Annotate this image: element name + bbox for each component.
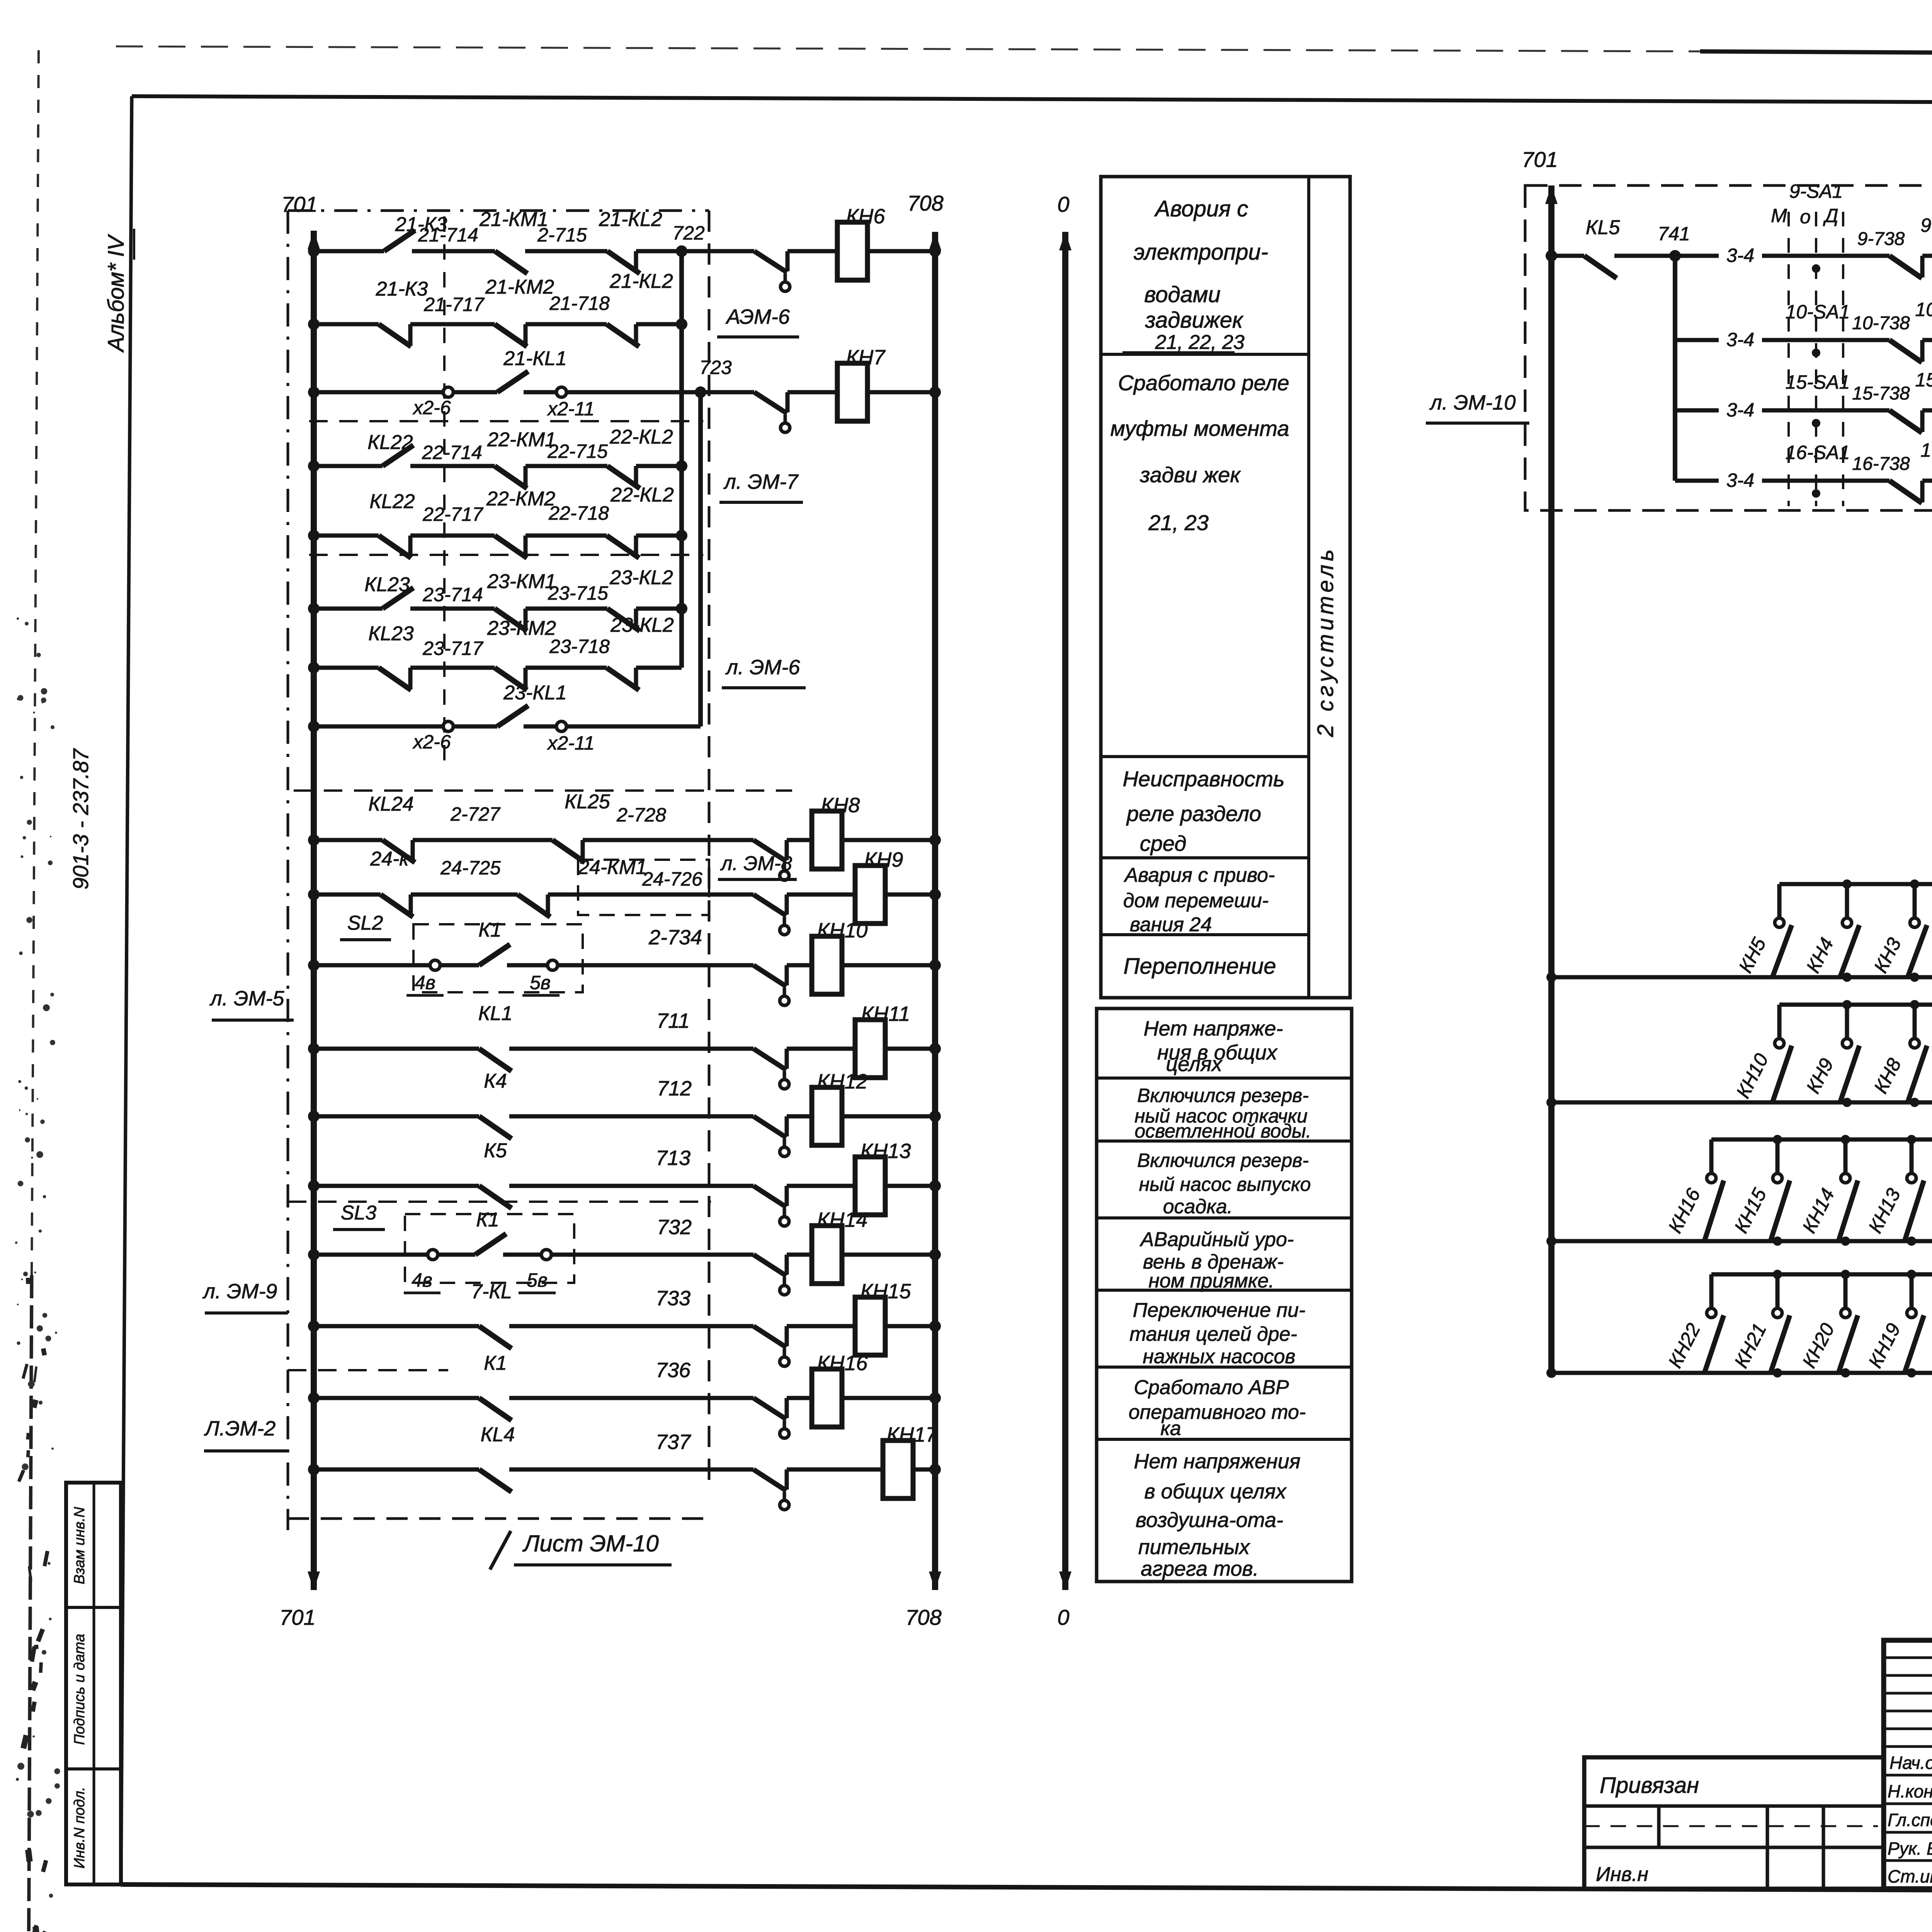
svg-text:л. ЭМ-5: л. ЭМ-5 [209,987,285,1010]
contact 21-KL2 [607,251,640,274]
title left extension box [1584,1757,1884,1889]
svg-text:задвижек: задвижек [1145,308,1244,333]
margin stamp table [66,1483,121,1884]
svg-text:Включился резерв-: Включился резерв- [1137,1085,1309,1106]
svg-text:3-4: 3-4 [1726,469,1754,491]
svg-text:733: 733 [656,1287,690,1310]
relay KH15 [855,1297,885,1355]
contact KL4 [479,1469,512,1492]
contact 23-KL1 [497,706,528,726]
svg-text:агрега тов.: агрега тов. [1141,1557,1259,1580]
svg-text:722: 722 [672,222,705,244]
branch 15: 3-4 / 15-738 / contact 15-KM1 [1675,408,1719,413]
svg-text:дом перемеши-: дом перемеши- [1123,889,1269,912]
contact K5 [479,1186,512,1208]
dashed group separator y1436 [309,554,703,556]
wire rung3 to x2-11 [524,390,557,395]
svg-text:16-SA1: 16-SA1 [1786,442,1850,463]
contact KH10 test [753,965,786,986]
svg-text:о: о [1800,206,1811,228]
wire KH7 to bus 708 [867,390,935,395]
contact 23-KM1 [495,609,527,631]
middle text column box 1 [1101,177,1350,998]
terminal 5v rung11 [507,963,548,968]
branch 9: 3-4 / 9-738 / contact 9-KM1 [1675,254,1719,258]
relay KH9 [855,866,885,923]
rung4 wire from bus 701 [314,464,383,468]
relay KH13 [855,1157,885,1215]
svg-text:708: 708 [905,1605,941,1629]
svg-text:Неисправность: Неисправность [1122,767,1284,791]
svg-text:К1: К1 [478,919,502,941]
svg-text:Сработало реле: Сработало реле [1118,371,1289,395]
contact 23-KM2 [495,668,527,690]
wire rung4 to collector [636,464,682,468]
svg-text:10-738: 10-738 [1852,313,1910,333]
contact KL1 [479,1049,512,1071]
svg-text:КL25: КL25 [565,791,610,813]
svg-text:осадка.: осадка. [1163,1196,1233,1218]
svg-text:тания целей дре-: тания целей дре- [1129,1323,1297,1345]
collector wire node 723 vertical [698,392,703,726]
svg-text:5в: 5в [527,1269,548,1291]
svg-text:Переключение пи-: Переключение пи- [1133,1299,1306,1321]
svg-text:3-4: 3-4 [1726,399,1754,421]
wire 733 to KH15 [509,1324,753,1328]
svg-text:вания 24: вания 24 [1130,913,1212,936]
rung10 wire from bus 701 [314,893,381,897]
svg-text:Нет напряже-: Нет напряже- [1144,1017,1283,1040]
svg-text:24-725: 24-725 [440,857,501,879]
dashed vertical x2 connector line [443,216,446,769]
left bus 701 [311,231,317,1590]
contact KH16 test [753,1398,786,1419]
svg-text:Авория с: Авория с [1154,196,1248,221]
svg-text:пительных: пительных [1138,1536,1250,1559]
svg-text:КL22: КL22 [367,431,413,454]
wire KH8 to bus 708 [842,838,935,842]
dashed line SA1 mid [1815,212,1817,506]
wire 22-715 [526,464,607,468]
svg-text:901-3 - 237.87: 901-3 - 237.87 [68,748,93,889]
wire to relay KH14 [787,1253,812,1257]
wire to node 722 [636,249,754,253]
svg-text:Взам инв.N: Взам инв.N [71,1507,88,1584]
svg-text:21-КL1: 21-КL1 [503,347,567,370]
svg-text:КL4: КL4 [481,1423,515,1446]
wire rung6 to collector [636,607,682,611]
dash-dot enclosure left ladder [287,211,289,1530]
rung1 wire from bus 701 [314,249,384,253]
contact KL24 [383,840,415,862]
svg-text:22-717: 22-717 [422,503,484,525]
svg-text:23-КL2: 23-КL2 [610,614,674,636]
svg-text:муфты момента: муфты момента [1110,416,1289,440]
wire to relay KH15 [787,1324,855,1328]
title block outline [1884,1640,1932,1889]
left bus 708 [932,232,938,1590]
svg-text:реле раздело: реле раздело [1126,801,1261,826]
lamp row HL9 wire 747 with contacts KH16-KH11 [1711,1138,1932,1142]
svg-text:Гл.спец: Гл.спец [1888,1810,1932,1830]
rung15 wire from bus 701 [314,1253,428,1257]
svg-text:737: 737 [656,1430,691,1454]
svg-text:К1: К1 [484,1352,507,1374]
svg-text:0: 0 [1057,1605,1069,1629]
row divider y917 [1101,353,1309,356]
wire KH11 to bus 708 [885,1047,935,1051]
lamp row HL8 wire 746 with contacts KH10-KH6 [1779,1003,1932,1007]
svg-text:л. ЭМ-7: л. ЭМ-7 [723,470,799,493]
rung6 wire from bus 701 [314,607,383,611]
svg-text:21-718: 21-718 [549,293,610,314]
svg-text:2-728: 2-728 [616,804,666,826]
svg-text:2 сгуститель: 2 сгуститель [1313,546,1338,737]
relay KH14 [812,1226,842,1284]
svg-text:Инв.N подл.: Инв.N подл. [71,1787,88,1869]
svg-text:0: 0 [1057,192,1069,216]
wire KH9 to bus 708 [885,893,935,897]
svg-text:701: 701 [279,1605,315,1629]
svg-text:3-4: 3-4 [1726,329,1754,350]
wire 21-718 [526,322,607,327]
svg-text:701: 701 [1522,147,1558,172]
wire KH6 to bus 708 [867,249,935,253]
wire KH10 to bus 708 [842,963,935,968]
svg-text:КL23: КL23 [368,622,413,645]
rung18 wire from bus 701 [314,1468,479,1472]
relay KH10 [812,936,842,994]
wire 2-715 [525,249,607,253]
contact 21-KM2 [495,324,527,347]
dashed group separator y3546 [288,1369,448,1371]
svg-text:22-714: 22-714 [422,442,482,463]
svg-text:10-SA1: 10-SA1 [1786,301,1850,323]
svg-text:21-К3: 21-К3 [376,278,428,300]
rung12 wire from bus 701 [314,1047,479,1051]
svg-text:Нет напряжения: Нет напряжения [1134,1450,1300,1473]
connector x2-11 rung8 [556,721,566,731]
svg-text:Ст.инж: Ст.инж [1888,1866,1932,1886]
svg-text:М: М [1771,205,1787,226]
svg-text:ный насос выпуско: ный насос выпуско [1139,1173,1311,1195]
svg-text:Переполнение: Переполнение [1123,954,1276,979]
box2 divider y3339 [1097,1289,1352,1292]
svg-text:Н.конт: Н.конт [1888,1781,1932,1801]
wire to relay KH7 [787,390,837,395]
wire rung3 mid [453,390,497,395]
svg-text:целях: целях [1166,1053,1223,1076]
dashed box 24-KM1 [578,860,709,915]
wire to relay KH8 [787,838,812,842]
svg-text:КН11: КН11 [861,1002,910,1026]
svg-text:x2-11: x2-11 [547,732,594,754]
svg-text:воздушна-ота-: воздушна-ота- [1136,1509,1283,1532]
contact 21-K3 rung2 [379,324,411,347]
contact KL25 [553,840,585,862]
svg-text:10-КМ1: 10-КМ1 [1915,299,1932,320]
right bus 701 [1548,185,1554,1373]
svg-text:Подпись и дата: Подпись и дата [71,1634,88,1745]
svg-text:Л.ЭМ-2: Л.ЭМ-2 [204,1417,276,1440]
contact KH14 test [753,1255,786,1276]
terminal 5v rung15 [503,1253,542,1257]
svg-text:КН13: КН13 [861,1139,911,1163]
rung8 wire from bus 701 [314,724,444,729]
svg-text:Д: Д [1823,205,1838,226]
wire rung3 to node 723 [566,390,754,395]
svg-text:736: 736 [656,1359,691,1382]
contact KH13 test [753,1186,786,1207]
dashed group separator y2046 [294,789,792,792]
svg-text:КН10: КН10 [817,919,868,942]
svg-text:КН14: КН14 [817,1208,868,1231]
box2 divider y2953 [1097,1139,1352,1143]
contact K1 rung11 [440,963,479,968]
contact 22-KL2 rung5 [607,536,639,558]
dashed box SL2 [413,924,583,992]
rung14 wire from bus 701 [314,1184,479,1188]
svg-text:КL23: КL23 [364,573,410,596]
contact 7-KL [479,1326,512,1349]
contact 21-KM1 [495,251,527,274]
contact KH11 test [753,1049,786,1070]
contact 21-KL1 [497,371,528,392]
wire rung2 to collector [636,322,682,327]
contact KH6 test [754,251,787,272]
wire 2-728 to KH8 [583,838,753,842]
lamp row HL10 wire 748 with contacts KH22-KH17 [1711,1272,1932,1277]
title thin rows [1884,1656,1932,1659]
svg-text:21-714: 21-714 [418,224,478,246]
svg-text:x2-6: x2-6 [412,397,451,418]
svg-text:л. ЭМ-8: л. ЭМ-8 [720,852,792,875]
svg-text:КН17: КН17 [887,1423,938,1446]
row divider y2419 [1101,933,1309,936]
svg-text:23-717: 23-717 [422,638,484,659]
svg-text:x2-11: x2-11 [547,398,594,420]
contact 24-KM1 [518,895,550,917]
box2 divider y3538 [1097,1366,1352,1369]
wire KL5 to node 741 [1614,254,1675,258]
row divider y1958 [1101,755,1309,758]
wire 22-714 [410,464,495,468]
wire 711 to KH11 [509,1047,753,1051]
svg-text:КН9: КН9 [864,848,903,871]
svg-text:КН6: КН6 [846,205,886,228]
svg-text:сред: сред [1140,831,1187,855]
wire 2-734 to KH10 [557,963,753,968]
contact 21-K3 rung1 [384,230,415,251]
svg-text:Нач.отд: Нач.отд [1889,1753,1932,1773]
svg-text:ном приямке.: ном приямке. [1148,1270,1274,1292]
contact 24-k [381,895,413,917]
svg-text:4в: 4в [415,972,435,993]
wire KH12 to bus 708 [842,1114,935,1119]
relay KH6 [837,222,867,280]
svg-text:Включился резерв-: Включился резерв- [1137,1150,1309,1171]
contact K1 rung15 [437,1253,475,1257]
contact KL23 rung7 [379,668,411,690]
svg-text:КН7: КН7 [846,346,886,369]
svg-text:16-738: 16-738 [1852,454,1910,474]
svg-text:22-715: 22-715 [547,440,608,462]
contact KL22 rung5 [379,536,411,558]
wire to relay KH10 [787,963,812,968]
rung3 wire from bus 701 [314,390,444,395]
svg-text:23-714: 23-714 [422,584,483,605]
svg-text:22-КL2: 22-КL2 [609,426,673,448]
svg-text:24-КМ1: 24-КМ1 [578,856,647,879]
wire 23-717 [410,666,495,670]
svg-text:708: 708 [907,191,943,215]
wire KH16 to bus 708 [842,1396,935,1400]
svg-text:К5: К5 [484,1139,507,1162]
contact KL5 [1551,254,1584,258]
svg-text:x2-6: x2-6 [412,731,451,753]
terminal 4v rung15 [428,1250,438,1260]
contact K4 [479,1116,512,1139]
box2 divider y2790 [1097,1077,1352,1080]
svg-text:7-КL: 7-КL [471,1281,512,1303]
svg-text:л. ЭМ-10: л. ЭМ-10 [1429,391,1516,414]
wire 24-725 [411,893,518,897]
svg-text:22-КL2: 22-КL2 [610,484,674,506]
svg-text:23-718: 23-718 [549,636,610,657]
svg-text:SL3: SL3 [341,1202,377,1224]
svg-text:КL24: КL24 [368,793,413,815]
relay KH17 [883,1440,913,1498]
svg-text:15-КМ1: 15-КМ1 [1915,369,1932,391]
svg-text:9-SA1: 9-SA1 [1789,180,1843,202]
wire to relay KH12 [787,1114,812,1119]
svg-text:3-4: 3-4 [1726,245,1754,266]
wire 22-717 [410,534,495,538]
contact KH12 test [753,1116,786,1138]
svg-text:21, 22, 23: 21, 22, 23 [1155,331,1244,354]
scan speckles lower left [27,820,32,825]
sheet border top band line [1700,51,1932,57]
wire KH14 to bus 708 [842,1253,935,1257]
wire 712 to KH12 [509,1114,753,1119]
contact KL23 rung6 [383,588,413,609]
wire to relay KH11 [787,1047,855,1051]
middle column sub divider [1307,177,1310,998]
relay KH16 [812,1369,842,1427]
svg-text:21, 23: 21, 23 [1148,510,1209,535]
svg-text:21-717: 21-717 [423,294,485,315]
svg-text:21-КL2: 21-КL2 [609,270,673,293]
svg-text:водами: водами [1144,282,1221,307]
wire 713 to KH13 [509,1184,753,1188]
svg-text:КL5: КL5 [1586,216,1621,239]
svg-text:712: 712 [657,1077,692,1100]
svg-text:2-727: 2-727 [450,803,501,825]
svg-text:КН12: КН12 [817,1070,868,1093]
svg-text:5в: 5в [530,972,551,993]
left extension cells [1657,1806,1661,1847]
wire rung8 to node 723 [566,724,701,729]
svg-text:23-КМ2: 23-КМ2 [487,617,556,639]
svg-text:л. ЭМ-6: л. ЭМ-6 [725,656,801,679]
node 741 vertical [1673,256,1677,481]
svg-text:22-718: 22-718 [548,502,609,524]
svg-text:КН15: КН15 [861,1280,912,1303]
svg-text:Рук. Бр: Рук. Бр [1888,1838,1932,1859]
svg-text:электропри-: электропри- [1134,240,1268,265]
sheet border top [132,96,1932,105]
svg-text:22-КМ2: 22-КМ2 [486,488,555,510]
contact KL22 rung4 [383,445,413,466]
svg-text:15-SA1: 15-SA1 [1786,371,1850,393]
terminal 4v rung11 [430,960,440,970]
svg-text:АЭМ-6: АЭМ-6 [725,305,790,328]
rung2 wire from bus 701 [314,322,379,327]
contact KH15 test [753,1326,786,1347]
contact 23-KL2 rung7 [607,668,639,690]
rung7 wire from bus 701 [314,666,379,670]
sheet border left [121,96,132,1884]
box2 divider y3725 [1097,1438,1352,1441]
svg-text:КН16: КН16 [817,1352,868,1375]
contact 21-KL2 rung2 [607,324,639,347]
connector x2-11 rung3 [556,387,566,397]
wire rung5 to collector [636,534,682,538]
wire 22-718 [526,534,607,538]
contact 22-KL2 rung4 [607,466,640,488]
svg-text:SL2: SL2 [347,912,383,934]
svg-text:9-КМ1: 9-КМ1 [1920,214,1932,236]
contact 22-KM1 [495,466,527,488]
dashed group separator y3110 [288,1201,711,1203]
wire 732 to KH14 [551,1253,753,1257]
lamp row HL7 wire 745 with contacts KH5-KH1 [1779,882,1932,886]
connector x2-6 rung3 [443,387,453,397]
dashed enclosure right group [1525,185,1932,510]
svg-text:Лист ЭМ-10: Лист ЭМ-10 [522,1531,658,1556]
contact KH7 test [754,392,787,413]
svg-text:КН8: КН8 [821,794,860,817]
dashed line SA1 left [1787,212,1790,506]
rung11 wire from bus 701 [314,963,430,968]
svg-text:723: 723 [699,357,732,378]
svg-text:732: 732 [657,1216,692,1239]
svg-text:Альбом* IV: Альбом* IV [104,234,129,353]
svg-text:23-КL1: 23-КL1 [503,682,567,704]
svg-text:К4: К4 [484,1070,507,1092]
svg-text:АВарийный уро-: АВарийный уро- [1139,1228,1294,1251]
wire 737 to KH17 [509,1468,753,1472]
contact KH9 test [753,895,786,916]
relay KH12 [812,1087,842,1145]
svg-text:9-738: 9-738 [1857,229,1905,249]
left bus 0 [1062,232,1068,1590]
svg-text:15-738: 15-738 [1852,383,1910,404]
branch 16: 3-4 / 16-738 / contact 16-KM [1675,479,1719,483]
svg-text:Инв.н: Инв.н [1596,1863,1648,1886]
contact K1 rung17 [479,1398,512,1420]
wire 21-717 [410,322,495,327]
wire to relay KH17 [787,1468,883,1472]
wire 736 to KH16 [509,1396,753,1400]
paper edge left [32,50,39,1275]
svg-text:2-715: 2-715 [537,224,587,246]
svg-text:16-КМ: 16-КМ [1920,439,1932,461]
connector x2-6 rung8 [443,721,453,731]
left extension privyazan row [1584,1804,1884,1808]
svg-text:21-КL2: 21-КL2 [599,208,662,231]
sheet border bottom [121,1884,1932,1893]
